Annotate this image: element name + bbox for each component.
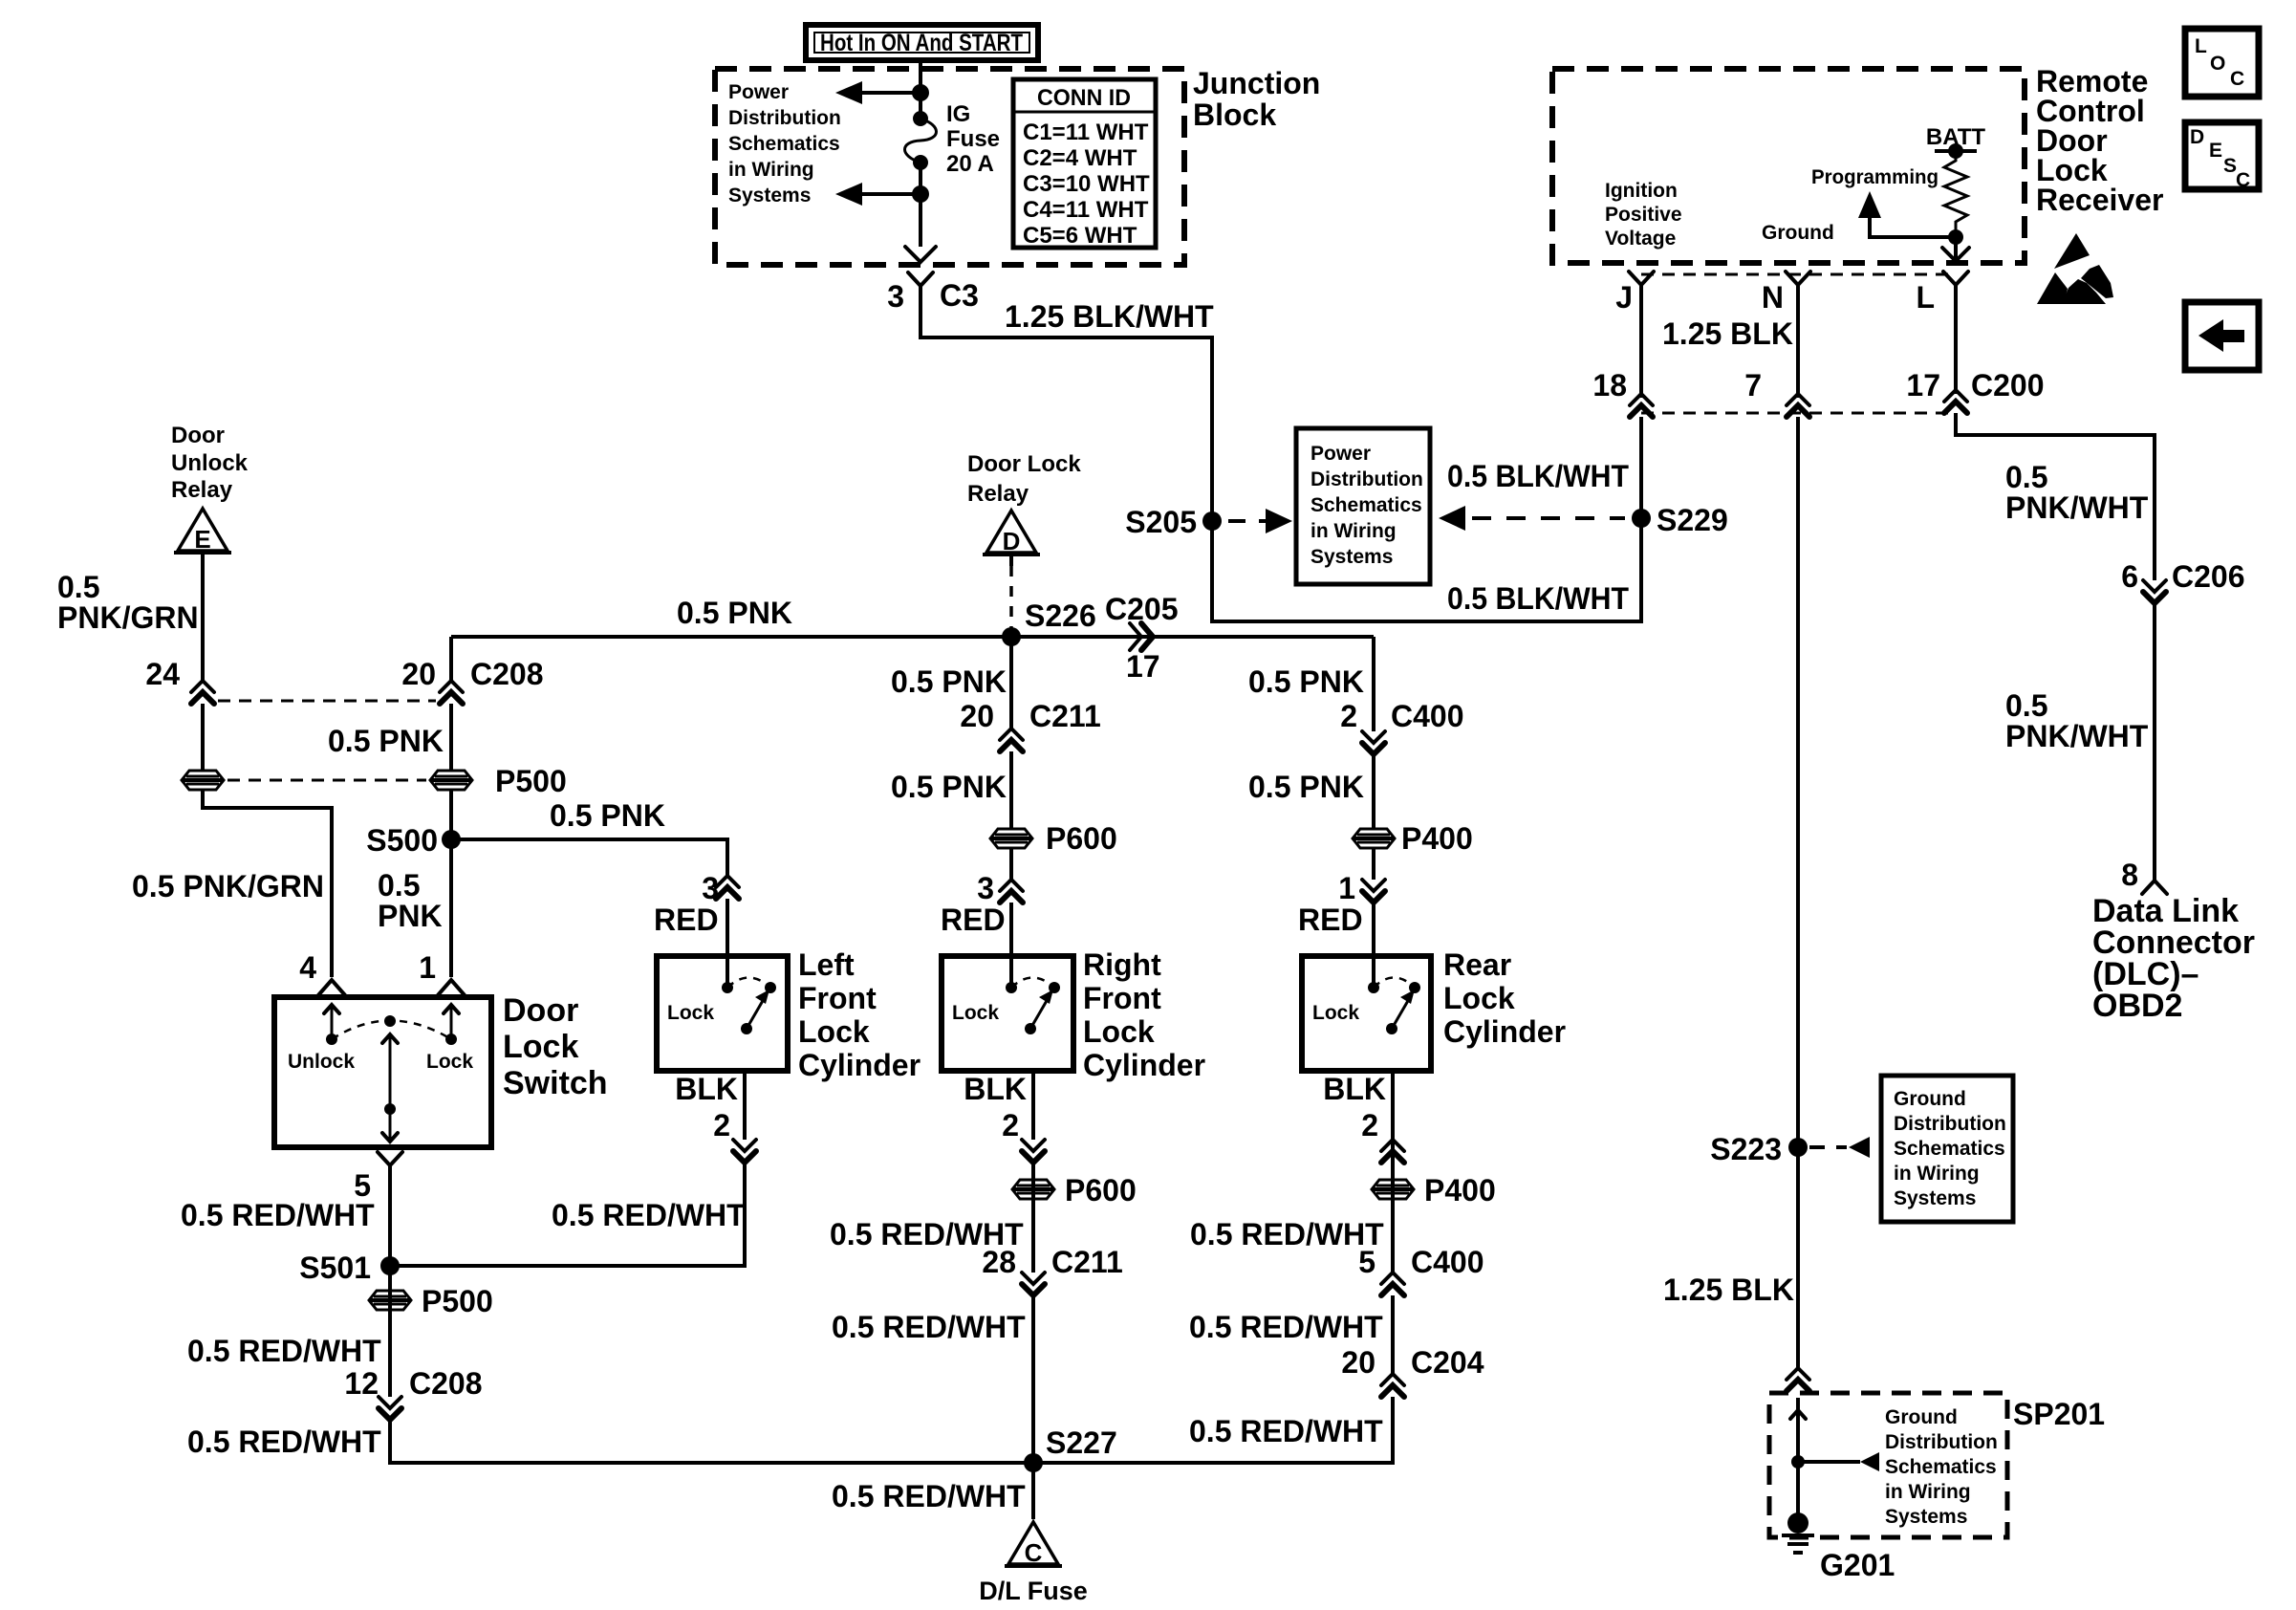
svg-text:C: C: [1025, 1538, 1043, 1567]
svg-text:Systems: Systems: [728, 185, 811, 207]
rear cylinder contacts: [1368, 978, 1420, 1035]
connector pin J Y symbol: [1629, 272, 1654, 398]
svg-text:0.5: 0.5: [57, 570, 99, 604]
svg-text:Lock: Lock: [426, 1051, 473, 1073]
svg-text:Cylinder: Cylinder: [798, 1048, 921, 1082]
svg-text:0.5 RED/WHT: 0.5 RED/WHT: [832, 1310, 1026, 1344]
connector chevrons pin 2 C400 (down): [1362, 731, 1385, 754]
svg-text:0.5 PNK: 0.5 PNK: [550, 798, 665, 833]
dashed arrow S229 to power distribution box: [1439, 506, 1625, 531]
node resistor bottom dot: [1948, 229, 1963, 245]
svg-text:0.5: 0.5: [378, 868, 420, 903]
rear lock cylinder box: [1302, 956, 1431, 1071]
label IG Fuse 20 A: [946, 101, 1000, 177]
svg-text:Lock: Lock: [667, 1002, 714, 1024]
svg-text:0.5 BLK/WHT: 0.5 BLK/WHT: [1447, 459, 1629, 493]
BATT terminal bar and dot: [1935, 143, 1977, 159]
svg-text:S227: S227: [1046, 1425, 1117, 1460]
svg-text:17: 17: [1126, 649, 1160, 684]
svg-text:Schematics: Schematics: [1310, 494, 1422, 516]
connector C205 chevrons (pointing right): [1130, 623, 1153, 650]
svg-text:12: 12: [344, 1366, 379, 1401]
svg-text:Hot In ON And START: Hot In ON And START: [820, 30, 1023, 56]
switch common pole double arrow: [382, 1034, 398, 1142]
label 0.5 PNK/WHT (lower): [2005, 688, 2149, 753]
wire 0.5 BLK/WHT from S205 down to pin 18 (J): [1212, 417, 1641, 621]
svg-text:P500: P500: [495, 764, 567, 798]
dashed arrow S205 to power distribution box: [1228, 509, 1292, 533]
svg-text:20: 20: [401, 657, 436, 691]
wire main 0.5 PNK bus: [451, 635, 1374, 639]
node junction dot lower feed: [912, 185, 929, 203]
svg-text:PNK/WHT: PNK/WHT: [2005, 719, 2149, 753]
svg-text:Power: Power: [1310, 443, 1371, 465]
svg-text:Lock: Lock: [952, 1002, 999, 1024]
svg-text:Unlock: Unlock: [288, 1051, 355, 1073]
DESC reference box: [2185, 122, 2259, 191]
power distribution schematics box (middle): [1296, 428, 1430, 584]
svg-text:in Wiring: in Wiring: [728, 159, 814, 181]
connector chevrons pin 6 C206 (down): [2143, 580, 2166, 603]
receiver name label: [2036, 64, 2163, 217]
wire RED into rear cylinder: [1372, 903, 1375, 988]
svg-text:Right: Right: [1083, 947, 1161, 982]
svg-text:L: L: [1916, 280, 1935, 315]
svg-text:Distribution: Distribution: [1894, 1113, 2006, 1135]
switch wiper dashed arc: [332, 1021, 451, 1040]
svg-text:CONN ID: CONN ID: [1037, 85, 1131, 111]
connector chevrons rear pin 1 (down): [1362, 880, 1385, 903]
svg-text:Ground: Ground: [1762, 222, 1834, 244]
svg-text:C: C: [2236, 169, 2250, 191]
svg-text:6: 6: [2121, 559, 2138, 594]
svg-text:28: 28: [982, 1245, 1016, 1279]
power distribution schematics note (junction block): [728, 81, 841, 207]
svg-text:Ground: Ground: [1885, 1406, 1958, 1428]
wire P600 to pin 3: [1009, 848, 1013, 880]
svg-text:Schematics: Schematics: [1885, 1456, 1997, 1478]
svg-text:C1=11 WHT: C1=11 WHT: [1023, 120, 1149, 145]
svg-text:C400: C400: [1411, 1245, 1484, 1279]
svg-text:0.5 PNK: 0.5 PNK: [891, 770, 1007, 804]
wire BLK below rear cylinder: [1391, 1071, 1395, 1166]
wire C400 to C204: [1391, 1295, 1395, 1374]
svg-text:C208: C208: [470, 657, 544, 691]
connector pin N Y symbol: [1786, 272, 1810, 398]
connector chevrons pin 12 C208: [379, 1397, 401, 1420]
svg-text:S: S: [2223, 155, 2237, 177]
svg-text:20: 20: [960, 699, 994, 733]
wire 1.25 BLK/WHT from C3 to S205: [921, 296, 1212, 521]
svg-text:Unlock: Unlock: [171, 450, 249, 476]
svg-text:0.5: 0.5: [2005, 688, 2047, 723]
svg-text:C211: C211: [1051, 1245, 1123, 1279]
connector switch pin 5 Y symbol: [378, 1152, 402, 1266]
connector chevrons right cylinder pin 3: [1000, 880, 1023, 903]
svg-text:1.25 BLK: 1.25 BLK: [1662, 316, 1793, 351]
svg-text:C2=4 WHT: C2=4 WHT: [1023, 145, 1137, 171]
label Hot In ON And START box: [806, 25, 1038, 60]
svg-text:PNK/WHT: PNK/WHT: [2005, 490, 2149, 525]
connector pin L Y symbol: [1943, 272, 1968, 394]
svg-text:0.5 RED/WHT: 0.5 RED/WHT: [187, 1425, 381, 1459]
svg-text:S500: S500: [366, 823, 438, 858]
svg-text:in Wiring: in Wiring: [1310, 520, 1397, 542]
svg-text:O: O: [2210, 53, 2225, 75]
svg-text:20 A: 20 A: [946, 151, 994, 177]
wire S501 branch to left cylinder BLK: [390, 1163, 745, 1266]
svg-text:Positive: Positive: [1605, 204, 1682, 226]
svg-text:P500: P500: [422, 1284, 493, 1318]
svg-text:P400: P400: [1424, 1173, 1496, 1207]
svg-text:Lock: Lock: [798, 1014, 870, 1049]
svg-text:P600: P600: [1065, 1173, 1137, 1207]
svg-text:2: 2: [713, 1108, 730, 1142]
svg-text:Left: Left: [798, 947, 855, 982]
LOC reference box: [2185, 29, 2259, 97]
node S223: [1788, 1138, 1808, 1157]
door lock switch box: [274, 997, 491, 1147]
node SP201 junction dot: [1791, 1455, 1805, 1469]
svg-text:Voltage: Voltage: [1605, 228, 1676, 250]
svg-text:Relay: Relay: [171, 477, 233, 503]
svg-text:Lock: Lock: [1312, 1002, 1359, 1024]
junction block dashed box: [715, 69, 1184, 265]
svg-text:17: 17: [1906, 368, 1940, 402]
wire 0.5 PNK/GRN from relay E down: [201, 553, 205, 681]
remote control door lock receiver dashed box: [1552, 69, 2025, 263]
right cylinder contacts: [1006, 978, 1060, 1035]
pass-through grommet P500 (bottom): [369, 1291, 411, 1310]
svg-text:Lock: Lock: [503, 1029, 578, 1065]
svg-text:Distribution: Distribution: [1885, 1431, 1998, 1453]
label 0.5 PNK/GRN (two lines): [57, 570, 199, 635]
wire 0.5 PNK S226 to C211: [1009, 637, 1013, 729]
wire 0.5 PNK/WHT from C200 to C206: [1956, 413, 2155, 580]
svg-text:0.5 PNK/GRN: 0.5 PNK/GRN: [132, 869, 324, 903]
svg-text:C3: C3: [940, 278, 979, 313]
svg-text:2: 2: [1002, 1108, 1019, 1142]
svg-text:Schematics: Schematics: [1894, 1138, 2005, 1160]
wire RED into right cylinder: [1009, 903, 1013, 988]
connector chevrons pin 7: [1787, 394, 1809, 417]
svg-text:C3=10 WHT: C3=10 WHT: [1023, 171, 1150, 197]
svg-text:D/L Fuse: D/L Fuse: [979, 1577, 1088, 1605]
wire segment C208 to P500: [449, 704, 453, 771]
svg-text:0.5 RED/WHT: 0.5 RED/WHT: [181, 1198, 375, 1232]
connector chevrons pin 17 C200: [1944, 390, 1967, 413]
svg-text:N: N: [1762, 280, 1784, 315]
svg-text:Cylinder: Cylinder: [1443, 1014, 1566, 1049]
svg-text:24: 24: [145, 657, 180, 691]
svg-text:RED: RED: [1298, 903, 1363, 937]
wire S227 to D/L fuse: [1031, 1463, 1035, 1519]
SP201 dashed box: [1769, 1393, 2007, 1537]
node S229: [1632, 509, 1651, 528]
connector chevrons left cylinder pin 2: [733, 1140, 756, 1163]
svg-text:Systems: Systems: [1894, 1187, 1976, 1209]
wire C204 down to S227 run: [1033, 1397, 1393, 1463]
pass-through grommet P400 (top): [1353, 829, 1395, 848]
connector chevrons above SP201: [1787, 1368, 1809, 1391]
arrow SP201 to ground distribution note: [1798, 1452, 1879, 1471]
svg-text:Relay: Relay: [967, 481, 1029, 507]
svg-text:BLK: BLK: [675, 1072, 738, 1106]
right front lock cylinder box: [942, 956, 1073, 1071]
svg-text:0.5 RED/WHT: 0.5 RED/WHT: [1190, 1217, 1384, 1251]
dashed link C208 connectors: [218, 700, 436, 703]
svg-text:C206: C206: [2172, 559, 2245, 594]
wire S501 to P500 to C208: [388, 1266, 392, 1397]
connector chevrons pin 28 C211: [1022, 1273, 1045, 1295]
wire C211 down to S227: [1031, 1295, 1035, 1463]
fuse IG 20A element: [905, 119, 937, 163]
connector chevrons pin 20 C211: [1000, 729, 1023, 751]
wire pin2 to P600 bottom: [1031, 1163, 1035, 1273]
svg-text:0.5 RED/WHT: 0.5 RED/WHT: [1189, 1310, 1383, 1344]
svg-text:0.5 PNK: 0.5 PNK: [677, 596, 792, 630]
label Data Link Connector (DLC)- OBD2: [2092, 893, 2255, 1024]
svg-text:Distribution: Distribution: [1310, 468, 1423, 490]
svg-text:Ground: Ground: [1894, 1088, 1966, 1110]
svg-text:S223: S223: [1710, 1132, 1782, 1166]
svg-text:7: 7: [1744, 368, 1762, 402]
svg-text:RED: RED: [654, 903, 719, 937]
svg-text:C: C: [2230, 68, 2244, 90]
switch wiper pivot dot: [384, 1015, 396, 1027]
svg-text:J: J: [1615, 280, 1633, 315]
svg-text:Programming: Programming: [1811, 166, 1939, 188]
relay triangle D (door lock relay): [983, 511, 1040, 566]
pass-through grommet P500 (right): [430, 771, 472, 790]
back arrow box: [2185, 302, 2259, 370]
wire S500 branch to left front lock cylinder pin 3: [451, 839, 727, 876]
connector chevrons rear pin 2 (up): [1381, 1140, 1404, 1163]
node S205: [1202, 511, 1222, 531]
svg-text:0.5 PNK: 0.5 PNK: [1248, 770, 1364, 804]
svg-text:0.5 PNK: 0.5 PNK: [1248, 664, 1364, 699]
svg-text:BLK: BLK: [1323, 1072, 1386, 1106]
svg-text:18: 18: [1592, 368, 1627, 402]
svg-text:2: 2: [1340, 699, 1357, 733]
svg-text:Front: Front: [798, 981, 877, 1015]
svg-text:Front: Front: [1083, 981, 1161, 1015]
label Ignition Positive Voltage: [1605, 180, 1682, 250]
label Door Unlock Relay: [171, 423, 249, 503]
svg-text:SP201: SP201: [2013, 1397, 2105, 1431]
svg-text:0.5 PNK: 0.5 PNK: [891, 664, 1007, 699]
label Left Front Lock Cylinder: [798, 947, 921, 1082]
switch pin 4 internal contact: [324, 1004, 339, 1045]
svg-text:0.5 BLK/WHT: 0.5 BLK/WHT: [1447, 581, 1629, 616]
node S500: [442, 830, 461, 849]
svg-text:0.5: 0.5: [2005, 460, 2047, 494]
svg-text:Cylinder: Cylinder: [1083, 1048, 1205, 1082]
svg-text:S205: S205: [1125, 505, 1197, 539]
svg-text:2: 2: [1361, 1108, 1378, 1142]
ground distribution schematics note (SP201): [1885, 1406, 1998, 1528]
svg-text:E: E: [194, 525, 210, 554]
node S226: [1002, 627, 1021, 646]
svg-text:Rear: Rear: [1443, 947, 1511, 982]
svg-text:Lock: Lock: [1083, 1014, 1155, 1049]
wire ground 1.25 BLK pin 7 down to SP201: [1796, 417, 1800, 1368]
svg-text:Schematics: Schematics: [728, 133, 840, 155]
arrowhead receiver ground exit (down): [1942, 237, 1969, 261]
ground G201 symbol: [1782, 1512, 1814, 1553]
svg-text:1: 1: [419, 950, 436, 985]
connector chevrons pin 20 C204 (up): [1381, 1374, 1404, 1397]
svg-text:C4=11 WHT: C4=11 WHT: [1023, 197, 1149, 223]
connector C3 pin 3 Y symbol: [908, 272, 933, 296]
svg-text:S501: S501: [299, 1251, 371, 1285]
wire into SP201 with arrowhead: [1790, 1398, 1806, 1523]
connector C200 thin dashed outline: [1641, 274, 1956, 413]
connector DLC pin 8 Y symbol: [2142, 881, 2167, 894]
svg-text:5: 5: [1358, 1245, 1375, 1279]
wire 0.5 PNK bus corner down to C400: [1372, 637, 1375, 731]
svg-text:PNK: PNK: [378, 899, 443, 933]
ESD warning symbol: [2037, 233, 2113, 304]
label 0.5 PNK (two lines to pin 1): [378, 868, 443, 933]
svg-text:Power: Power: [728, 81, 789, 103]
pass-through grommet P600 (top): [990, 829, 1032, 848]
svg-text:L: L: [2195, 35, 2207, 57]
svg-text:C5=6 WHT: C5=6 WHT: [1023, 223, 1137, 249]
svg-text:0.5 PNK: 0.5 PNK: [328, 724, 444, 758]
wire segment below C208 (left): [201, 704, 205, 771]
ground distribution schematics box: [1881, 1076, 2013, 1222]
svg-text:Ignition: Ignition: [1605, 180, 1678, 202]
wire C206 down to DLC: [2153, 603, 2156, 881]
svg-text:1.25 BLK/WHT: 1.25 BLK/WHT: [1005, 299, 1214, 334]
connector chevrons left cylinder pin 3: [716, 876, 739, 899]
wire programming branch: [1870, 214, 1956, 237]
connector chevrons pin 20 C208: [440, 681, 463, 704]
svg-text:3: 3: [977, 871, 994, 905]
svg-text:1.25 BLK: 1.25 BLK: [1663, 1273, 1794, 1307]
svg-text:C211: C211: [1029, 699, 1101, 733]
svg-text:RED: RED: [941, 903, 1006, 937]
dashed link P500 grommets: [227, 779, 426, 782]
dashed wire door lock relay feed: [1009, 566, 1013, 633]
svg-text:PNK/GRN: PNK/GRN: [57, 600, 199, 635]
svg-text:in Wiring: in Wiring: [1885, 1481, 1971, 1503]
svg-text:Junction: Junction: [1193, 66, 1320, 100]
svg-text:C204: C204: [1411, 1345, 1484, 1380]
svg-text:BLK: BLK: [964, 1072, 1027, 1106]
pass-through grommet (left, P500): [182, 771, 224, 790]
svg-text:C400: C400: [1391, 699, 1464, 733]
svg-text:0.5 RED/WHT: 0.5 RED/WHT: [832, 1479, 1026, 1513]
svg-text:1: 1: [1338, 871, 1355, 905]
wire P500 to S500: [449, 790, 453, 839]
wire BLK below right cylinder: [1031, 1071, 1035, 1140]
resistor (programming resistor): [1944, 151, 1967, 237]
arrowhead exiting junction block: [905, 247, 936, 262]
wire S500 down to switch pin 1: [449, 839, 453, 977]
svg-text:Fuse: Fuse: [946, 126, 1000, 152]
switch pin 1 internal contact: [444, 1004, 459, 1045]
svg-text:Distribution: Distribution: [728, 107, 841, 129]
wire pin2 to P400 bottom: [1391, 1166, 1395, 1273]
left cylinder contacts: [722, 978, 776, 1035]
label 0.5 PNK/WHT (upper): [2005, 460, 2149, 525]
wire branch arrow to power distribution (upper): [835, 81, 921, 104]
label Rear Lock Cylinder: [1443, 947, 1566, 1049]
svg-text:Systems: Systems: [1310, 546, 1393, 568]
wire C211 to P600: [1009, 751, 1013, 830]
node fuse top dot: [913, 111, 928, 126]
wire C400 to P400: [1372, 754, 1375, 830]
svg-text:S229: S229: [1657, 503, 1728, 537]
connector chevrons pin 5 C400 (up): [1381, 1273, 1404, 1295]
svg-text:0.5 RED/WHT: 0.5 RED/WHT: [1189, 1414, 1383, 1448]
svg-text:S226: S226: [1025, 598, 1096, 633]
label Door Lock Relay: [967, 451, 1081, 507]
svg-text:3: 3: [887, 279, 904, 314]
connector chevrons pin 18: [1630, 394, 1653, 417]
svg-text:Switch: Switch: [503, 1065, 608, 1101]
node S501: [380, 1256, 400, 1275]
svg-text:Receiver: Receiver: [2036, 183, 2163, 217]
relay triangle C (D/L fuse): [1005, 1522, 1062, 1567]
wire C208 down to S227 run: [390, 1420, 1033, 1463]
svg-text:OBD2: OBD2: [2092, 988, 2182, 1024]
wire PNK/GRN jog to switch pin 4: [203, 790, 332, 977]
svg-text:0.5 RED/WHT: 0.5 RED/WHT: [187, 1334, 381, 1368]
connector chevrons pin 24 C208: [191, 681, 214, 704]
wire from Hot In box into junction block: [919, 60, 922, 119]
svg-text:IG: IG: [946, 101, 970, 127]
pass-through grommet P600 (bottom): [1012, 1180, 1054, 1199]
wire 0.5 PNK from bus corner down to C208 (right): [449, 637, 453, 681]
dashed arrow S223 to ground distribution box: [1809, 1137, 1870, 1158]
svg-text:4: 4: [299, 950, 316, 985]
label Door Lock Switch: [503, 992, 608, 1101]
svg-text:Door: Door: [503, 992, 578, 1029]
node junction dot upper feed: [912, 84, 929, 101]
node fuse bottom dot: [913, 155, 928, 170]
wire BLK below left cylinder: [743, 1071, 747, 1140]
connector switch pin 1 Y symbol: [438, 980, 465, 995]
CONN ID table: [1013, 79, 1156, 249]
svg-text:8: 8: [2121, 858, 2138, 892]
connector chevrons right cylinder pin 2: [1022, 1140, 1045, 1163]
svg-text:E: E: [2209, 140, 2222, 162]
svg-text:G201: G201: [1820, 1548, 1895, 1582]
svg-text:in Wiring: in Wiring: [1894, 1163, 1980, 1185]
svg-text:Systems: Systems: [1885, 1506, 1967, 1528]
relay triangle E (door unlock relay): [174, 509, 231, 554]
svg-text:C200: C200: [1971, 368, 2045, 402]
node S227: [1024, 1453, 1043, 1472]
arrowhead programming (up): [1858, 191, 1881, 218]
svg-text:20: 20: [1341, 1345, 1375, 1380]
pass-through grommet P400 (bottom): [1372, 1180, 1414, 1199]
svg-text:D: D: [2190, 126, 2204, 148]
wire branch arrow to power distribution (lower): [835, 183, 921, 206]
label Right Front Lock Cylinder: [1083, 947, 1205, 1082]
svg-text:C208: C208: [409, 1366, 483, 1401]
svg-text:0.5 RED/WHT: 0.5 RED/WHT: [552, 1198, 746, 1232]
svg-text:Block: Block: [1193, 98, 1276, 132]
svg-text:Door Lock: Door Lock: [967, 451, 1081, 477]
svg-text:Lock: Lock: [1443, 981, 1515, 1015]
wire RED into left cylinder: [726, 899, 729, 988]
connector switch pin 4 Y symbol: [318, 980, 345, 995]
svg-text:D: D: [1003, 527, 1021, 555]
